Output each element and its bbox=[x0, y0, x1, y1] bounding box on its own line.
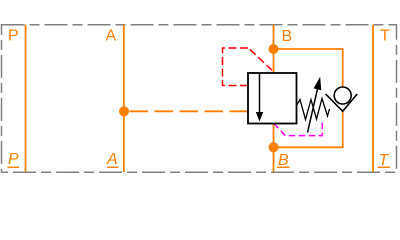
wire port line P bbox=[25, 25, 27, 172]
label port A bottom underline bbox=[107, 166, 119, 168]
valve V1 body bbox=[248, 73, 297, 124]
node junction on A line bbox=[119, 106, 129, 116]
svg-text:A: A bbox=[106, 28, 117, 45]
check valve CV1 (ball in seat) bbox=[326, 87, 358, 111]
spring (adjustable) bbox=[297, 99, 330, 120]
svg-text:B: B bbox=[282, 28, 293, 45]
pilot line red dashed (from B to valve pilot port) bbox=[223, 48, 273, 86]
wire port line B lower segment bbox=[273, 124, 275, 173]
enclosure dashed boundary bbox=[2, 25, 397, 173]
svg-text:P: P bbox=[8, 28, 19, 45]
wire port line B upper segment bbox=[273, 25, 275, 73]
wire check-valve branch upper (B junction to check valve) bbox=[274, 49, 343, 87]
svg-text:T: T bbox=[380, 28, 390, 45]
svg-text:T: T bbox=[379, 152, 390, 169]
wire check-valve branch lower (check valve to lower B junction) bbox=[274, 112, 343, 147]
wire port line T bbox=[372, 25, 374, 172]
svg-text:A: A bbox=[106, 151, 118, 168]
label port B bottom underline bbox=[277, 166, 290, 168]
svg-text:P: P bbox=[8, 151, 19, 168]
wire port line A bbox=[123, 25, 125, 172]
drain line magenta dashed (valve bottom to spring chamber) bbox=[274, 123, 322, 136]
valve V1 internal flow arrow bbox=[256, 73, 263, 122]
wire pilot line from A (dashed orange) bbox=[124, 110, 248, 112]
node junction on B line upper bbox=[269, 44, 279, 54]
svg-text:B: B bbox=[278, 152, 289, 169]
label port P bottom underline bbox=[8, 166, 20, 168]
node junction on B line lower bbox=[269, 142, 279, 152]
adjustment arrow across spring bbox=[308, 77, 322, 133]
label port T bottom underline bbox=[378, 166, 391, 168]
